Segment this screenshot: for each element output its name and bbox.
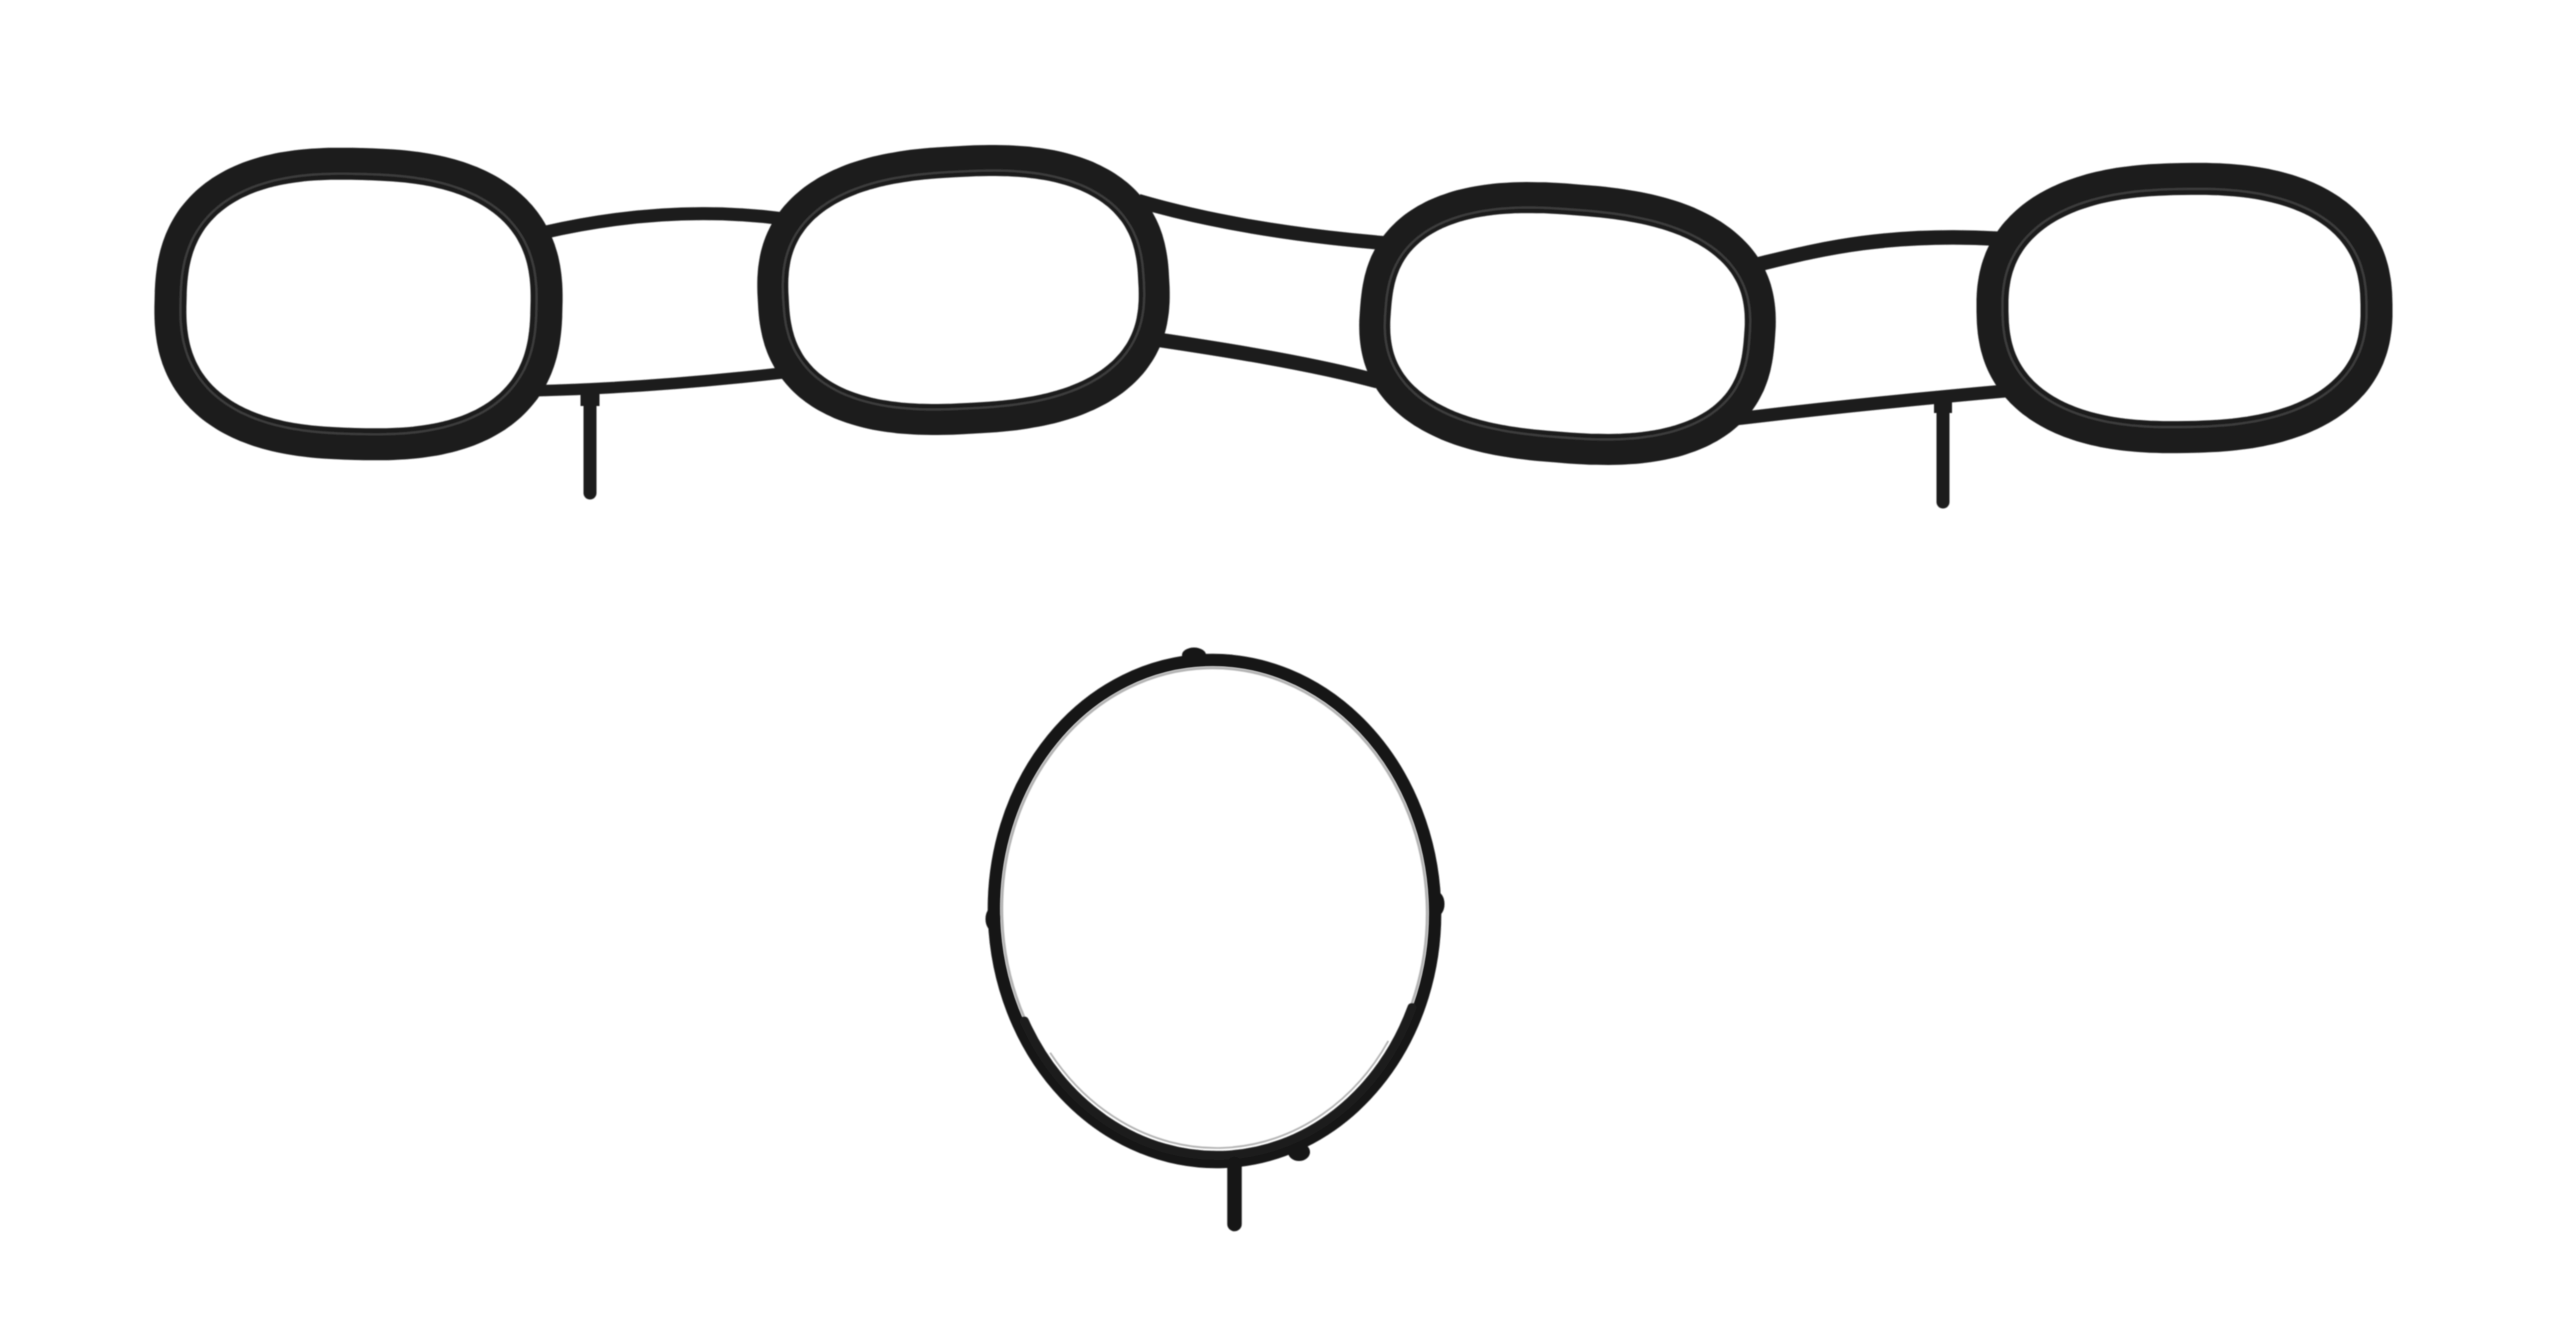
wire strap bottom 2-3 <box>1158 340 1378 382</box>
wire strap top 2-3 <box>1138 201 1384 243</box>
runner gasket ring 4 <box>1993 179 2377 437</box>
tab 1 fillet <box>581 391 600 406</box>
wire strap top 1-2 <box>544 214 781 233</box>
nub top <box>1182 648 1206 663</box>
wire strap bottom 1-2 <box>536 373 784 391</box>
inner ridge of runner gasket ring 3 <box>1385 208 1750 440</box>
nub right <box>1430 892 1445 916</box>
nub lower-right <box>1288 1143 1310 1161</box>
tab 2 fillet <box>1934 398 1952 413</box>
tail tab <box>1227 1164 1242 1224</box>
wire strap top 3-4 <box>1757 237 1999 264</box>
inner ridge of runner gasket ring 1 <box>180 174 536 435</box>
tab 1 <box>584 391 597 493</box>
runner gasket ring 1 <box>170 164 546 445</box>
throttle body gasket ring <box>985 652 1443 1169</box>
ring inner highlight <box>994 661 1436 1162</box>
runner gasket ring 2 <box>773 161 1154 420</box>
tab 2 <box>1937 398 1950 502</box>
inner ridge of runner gasket ring 2 <box>783 171 1144 410</box>
nub left <box>986 907 1001 931</box>
inner ridge of runner gasket ring 4 <box>2003 189 2367 427</box>
wire strap bottom 3-4 <box>1738 391 2007 419</box>
ring bottom thickening <box>1024 1007 1417 1162</box>
runner gasket ring 3 <box>1375 198 1761 450</box>
ring bottom inner highlight <box>1050 1041 1392 1154</box>
